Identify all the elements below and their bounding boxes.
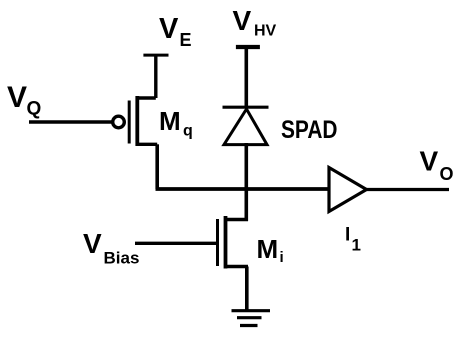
- svg-text:V: V: [420, 146, 439, 177]
- node wire (sense node to buffer input): [156, 187, 330, 191]
- svg-text:V: V: [7, 81, 27, 114]
- svg-text:O: O: [440, 164, 454, 184]
- svg-text:V: V: [83, 228, 102, 259]
- svg-text:1: 1: [352, 236, 361, 255]
- svg-text:M: M: [159, 106, 181, 136]
- output wire to V_O: [367, 188, 450, 191]
- power bar V_E: [143, 54, 168, 57]
- wire Mi source to ground: [245, 267, 249, 310]
- svg-text:I: I: [345, 225, 350, 246]
- svg-text:V: V: [159, 13, 179, 45]
- svg-text:i: i: [280, 249, 284, 266]
- wire V_Q to Mq gate bubble: [29, 120, 112, 123]
- wire SPAD anode down to Mi drain: [245, 143, 249, 221]
- svg-text:Bias: Bias: [104, 248, 140, 267]
- transistor Mi (NMOS): [218, 216, 249, 269]
- svg-text:E: E: [180, 30, 192, 50]
- svg-text:V: V: [233, 5, 252, 36]
- svg-text:M: M: [257, 234, 279, 264]
- wire Mq drain down to node: [155, 144, 159, 189]
- buffer I1: [329, 168, 367, 212]
- svg-text:Q: Q: [27, 99, 42, 120]
- power bar V_HV: [236, 45, 260, 49]
- transistor Mq (PMOS): [113, 96, 158, 146]
- wire V_E bar to Mq source: [154, 55, 157, 98]
- wire V_HV bar to SPAD cathode: [245, 47, 249, 107]
- diode SPAD: [223, 107, 269, 144]
- svg-text:HV: HV: [254, 23, 277, 40]
- svg-text:SPAD: SPAD: [281, 116, 338, 144]
- wire V_Bias to Mi gate: [135, 242, 216, 245]
- ground: [232, 311, 271, 326]
- svg-text:q: q: [183, 123, 193, 140]
